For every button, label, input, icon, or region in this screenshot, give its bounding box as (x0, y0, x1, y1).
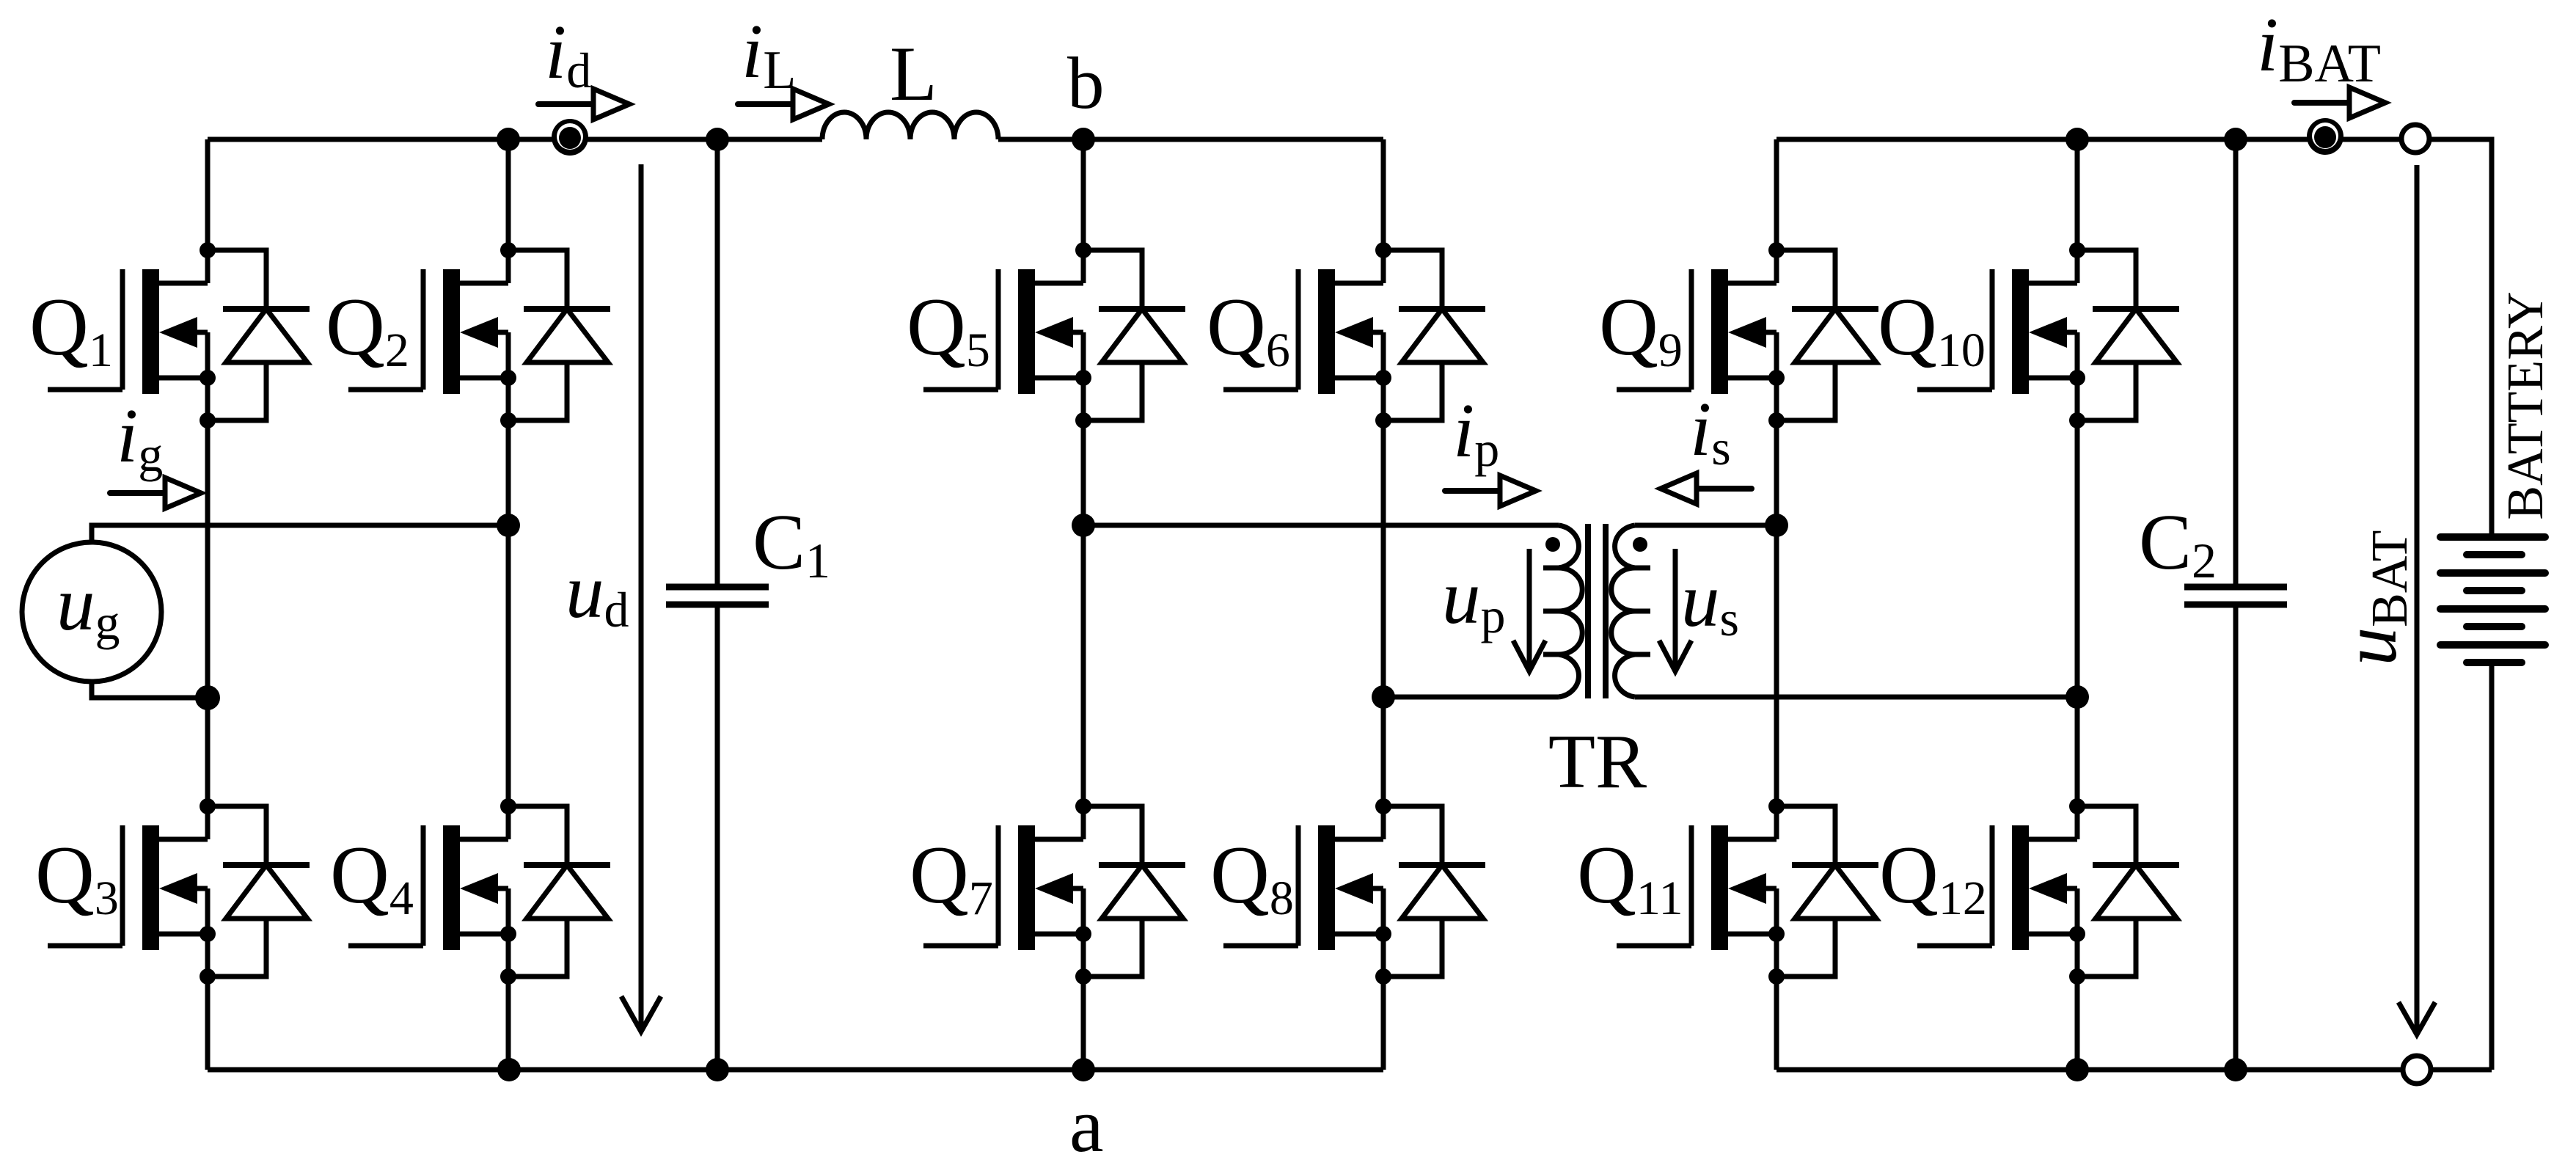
polarity dot secondary (1633, 537, 1647, 552)
junction C2 bottom (2224, 1058, 2247, 1081)
current measurement point iBAT (2307, 118, 2343, 155)
junction node b (1072, 128, 1095, 151)
body diode of Q11 (1777, 806, 1878, 977)
wire Q5/Q7 leg column x=1477 (1081, 139, 1086, 1070)
battery positive terminal (2401, 125, 2429, 153)
body diode of Q5 (1083, 250, 1185, 420)
Q4 drain/source/diode junction dots (500, 798, 516, 985)
junction ug to Q2/Q4 midpoint (497, 514, 520, 537)
wire C2 bottom lead (2233, 605, 2239, 1070)
wire bottom rail left (Q3 to Q8) (208, 1067, 1383, 1073)
wire ug top lead to Q2/Q4 midpoint (92, 525, 508, 542)
AC source ug circle (22, 542, 161, 682)
wire C1 top lead (715, 139, 720, 587)
transistor Q2 (N-MOSFET) (348, 269, 508, 394)
wire primary bottom (Q6/Q8 midpoint to TR) (1383, 695, 1559, 700)
wire Q2/Q4 leg column x=693 (506, 139, 511, 1070)
junction Q10 drain to top rail (2065, 128, 2089, 151)
junction ug to Q1/Q3 midpoint (195, 685, 220, 710)
junction node a (1072, 1058, 1095, 1081)
voltage arrow uBAT (2398, 165, 2435, 1034)
wire Q1/Q3 leg column x=283 (205, 139, 211, 1070)
voltage arrow us (1659, 549, 1691, 671)
body diode of Q6 (1383, 250, 1485, 420)
current arrow iL (738, 89, 829, 120)
junction primary top to Q5/Q7 midpoint (1072, 514, 1095, 537)
body diode of Q2 (508, 250, 610, 420)
junction C1 top (706, 128, 729, 151)
voltage arrow up (1513, 549, 1545, 671)
Q10 drain/source/diode junction dots (2069, 242, 2085, 428)
wire top rail left (inductor to Q6 top) (998, 137, 1383, 142)
Q9 drain/source/diode junction dots (1768, 242, 1785, 428)
wire bottom rail right (Q11 to battery -) (1777, 1067, 2492, 1073)
body diode of Q7 (1083, 806, 1185, 977)
voltage arrow ud (621, 164, 661, 1032)
body diode of Q10 (2077, 250, 2179, 420)
wire ug bottom lead to Q1/Q3 midpoint (92, 682, 208, 698)
Q3 drain/source/diode junction dots (200, 798, 216, 985)
polarity dot primary (1545, 537, 1560, 552)
transistor Q7 (N-MOSFET) (923, 825, 1083, 950)
transistor Q4 (N-MOSFET) (348, 825, 508, 950)
junction C2 top (2224, 128, 2247, 151)
Q7 drain/source/diode junction dots (1075, 798, 1091, 985)
junction Q12 source to bottom rail (2065, 1058, 2089, 1081)
Q6 drain/source/diode junction dots (1375, 242, 1391, 428)
junction secondary top to Q9/Q11 midpoint (1765, 514, 1788, 537)
body diode of Q12 (2077, 806, 2179, 977)
junction C1 bottom (706, 1058, 729, 1081)
body diode of Q4 (508, 806, 610, 977)
transistor Q5 (N-MOSFET) (923, 269, 1083, 394)
svg-text:BATTERY: BATTERY (2498, 291, 2554, 519)
wire top rail left (Q1 top to inductor) (208, 137, 822, 142)
wire C2 top lead (2233, 139, 2239, 587)
body diode of Q1 (208, 250, 310, 420)
svg-text:a: a (1069, 1082, 1104, 1168)
wire secondary top (TR to Q9/Q11 midpoint) (1635, 523, 1777, 528)
transformer TR secondary winding (1611, 525, 1650, 697)
svg-text:L: L (890, 31, 937, 117)
body diode of Q8 (1383, 806, 1485, 977)
transistor Q9 (N-MOSFET) (1617, 269, 1777, 394)
capacitor C2 (2184, 587, 2287, 605)
wire top rail right (Q9 top to battery +) (1777, 139, 2492, 537)
Q2 drain/source/diode junction dots (500, 242, 516, 428)
wire C1 bottom lead (715, 605, 720, 1070)
body diode of Q9 (1777, 250, 1878, 420)
transistor Q8 (N-MOSFET) (1223, 825, 1383, 950)
Q11 drain/source/diode junction dots (1768, 798, 1785, 985)
inductor L (822, 112, 998, 139)
Q8 drain/source/diode junction dots (1375, 798, 1391, 985)
transistor Q10 (N-MOSFET) (1917, 269, 2077, 394)
current arrow is (1661, 473, 1752, 504)
Q1 drain/source/diode junction dots (200, 242, 216, 428)
capacitor C1 (666, 587, 769, 605)
wire Q10/Q12 leg column x=2832 (2075, 139, 2080, 1070)
current measurement point id (552, 119, 588, 156)
wire primary top (Q5/Q7 midpoint to TR) (1083, 523, 1559, 528)
transistor Q1 (N-MOSFET) (48, 269, 208, 394)
current arrow id (538, 89, 629, 120)
junction secondary bottom to Q10/Q12 midpoint (2065, 685, 2089, 709)
svg-text:TR: TR (1548, 718, 1647, 804)
transistor Q11 (N-MOSFET) (1617, 825, 1777, 950)
transistor Q12 (N-MOSFET) (1917, 825, 2077, 950)
junction Q2 drain to top rail (497, 128, 520, 151)
transformer TR primary winding (1543, 525, 1582, 697)
wire battery bottom lead (2489, 663, 2495, 1070)
transistor Q3 (N-MOSFET) (48, 825, 208, 950)
wire Q9/Q11 leg column x=2422 (1774, 139, 1779, 1070)
current arrow ig (110, 478, 201, 508)
svg-text:b: b (1067, 42, 1105, 124)
transformer TR core (1588, 524, 1606, 698)
battery negative terminal (2403, 1056, 2431, 1084)
battery cells (2440, 537, 2545, 663)
current arrow iBAT (2294, 87, 2385, 118)
junction primary bottom to Q6/Q8 midpoint (1372, 685, 1395, 709)
Q5 drain/source/diode junction dots (1075, 242, 1091, 428)
wire secondary bottom (TR to Q10/Q12 midpoint) (1635, 695, 2077, 700)
transistor Q6 (N-MOSFET) (1223, 269, 1383, 394)
junction Q4 source to bottom rail (497, 1058, 521, 1081)
body diode of Q3 (208, 806, 310, 977)
current arrow ip (1445, 475, 1536, 506)
Q12 drain/source/diode junction dots (2069, 798, 2085, 985)
wire Q6/Q8 leg column x=1886 (1381, 139, 1386, 1070)
